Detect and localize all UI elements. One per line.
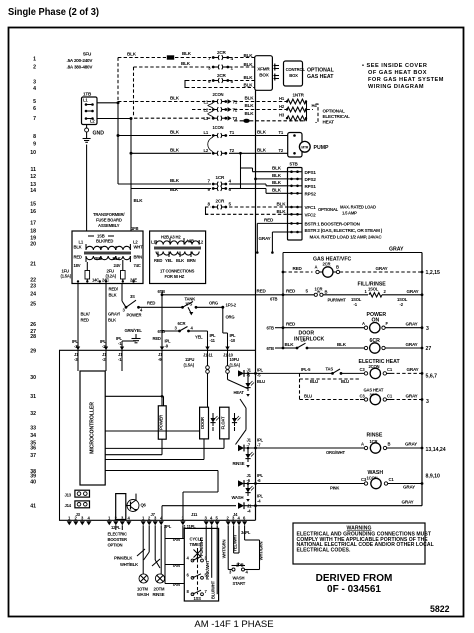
svg-text:GRAY/: GRAY/: [108, 312, 121, 317]
svg-text:5822: 5822: [430, 604, 450, 614]
wire pump row T2: [130, 147, 288, 155]
svg-text:-10: -10: [230, 338, 236, 343]
svg-text:2: 2: [33, 65, 36, 71]
svg-text:OPTIONAL: OPTIONAL: [307, 68, 335, 74]
svg-text:TRANSFORMER/: TRANSFORMER/: [93, 212, 125, 217]
svg-text:3S: 3S: [130, 294, 135, 299]
svg-text:PINK/BLK: PINK/BLK: [114, 555, 132, 560]
svg-text:BLK: BLK: [337, 342, 347, 347]
wire 6TB right bus: [282, 253, 284, 349]
resistor H2: [279, 104, 307, 112]
connector J13: [65, 490, 90, 497]
svg-text:BLK: BLK: [170, 130, 180, 135]
wire electric heat row: [244, 366, 365, 384]
svg-text:DERIVED FROM: DERIVED FROM: [316, 573, 393, 584]
svg-text:RED: RED: [286, 288, 296, 293]
svg-text:5TB: 5TB: [290, 162, 299, 167]
wire heat row L2 dashed: [192, 103, 254, 109]
svg-text:BLK: BLK: [181, 61, 191, 66]
svg-text:TAS: TAS: [326, 366, 334, 371]
svg-text:BLK: BLK: [272, 180, 282, 185]
svg-text:CONTROL: CONTROL: [286, 67, 306, 72]
svg-text:GRAY: GRAY: [403, 485, 415, 490]
pushbutton 2PB wash start: [228, 562, 259, 586]
svg-text:(1.5A): (1.5A): [230, 363, 241, 368]
svg-text:5FU: 5FU: [83, 52, 92, 57]
label 1SS: [194, 596, 202, 601]
svg-text:• SEE INSIDE COVER: • SEE INSIDE COVER: [362, 63, 427, 69]
wire wht grn 2: [245, 525, 264, 569]
contact 2CON L2-T2: [204, 107, 238, 112]
bottom caption: [194, 619, 273, 630]
wire BSTR1 red row: [256, 218, 288, 254]
svg-text:START: START: [233, 581, 246, 586]
svg-text:BOX: BOX: [289, 73, 298, 78]
contact 6CR tank: [158, 321, 208, 334]
svg-text:.5A 200-240V: .5A 200-240V: [67, 58, 94, 63]
label right refs 13-14-24: [426, 447, 446, 453]
relay coil 1CON wash: [244, 477, 423, 491]
wire bus L1 solid: [117, 103, 119, 184]
contact 2CON L3-T3: [204, 116, 238, 121]
label BLK row1: [127, 51, 253, 58]
svg-text:WASH: WASH: [233, 576, 245, 581]
svg-text:GRAY: GRAY: [402, 500, 414, 505]
svg-text:FUSE BOARD: FUSE BOARD: [96, 218, 122, 223]
svg-text:H1: H1: [279, 96, 285, 101]
svg-text:41: 41: [30, 504, 36, 510]
wire gas heat vfc row: [282, 257, 424, 278]
svg-text:DOOR: DOOR: [299, 331, 315, 337]
svg-text:BLK: BLK: [244, 62, 254, 67]
contact 2CR 8-5: [208, 198, 232, 209]
svg-text:6: 6: [33, 106, 36, 112]
wire 6TB vertical: [153, 295, 172, 351]
svg-text:1OTM: 1OTM: [137, 587, 149, 592]
svg-text:2OTM: 2OTM: [154, 587, 166, 592]
svg-text:DPS1: DPS1: [305, 170, 317, 175]
svg-text:RED: RED: [286, 321, 296, 326]
svg-text:BLK: BLK: [285, 342, 295, 347]
svg-text:RED: RED: [293, 266, 303, 271]
svg-text:BLK: BLK: [170, 147, 180, 152]
title: [8, 7, 99, 18]
svg-text:RED: RED: [74, 254, 82, 259]
relay coil 2CR power on: [267, 312, 424, 333]
wire 1TB L1 to bus: [97, 101, 120, 104]
wire dashed bus L1 upper: [117, 58, 119, 103]
wire 10FU slant: [228, 380, 248, 389]
label right ref 3b: [426, 399, 429, 405]
fuse 1FU: [61, 262, 90, 283]
transformer 1SB box: [72, 231, 143, 284]
label gas heat: [364, 388, 384, 398]
connector J11: [180, 512, 220, 525]
wire GRAY/BLK to J1-2: [106, 284, 121, 351]
svg-text:13,14,24: 13,14,24: [426, 447, 446, 453]
diode door: [210, 413, 219, 431]
svg-text:FOR 50 HZ: FOR 50 HZ: [165, 274, 185, 279]
svg-text:BLK: BLK: [182, 51, 192, 56]
connector J4: [226, 512, 248, 525]
rinse indicator: [233, 447, 255, 468]
svg-text:BLK: BLK: [127, 52, 137, 57]
svg-text:1NTR: 1NTR: [293, 92, 305, 97]
label right refs 8-9-10: [426, 474, 441, 480]
svg-text:20: 20: [30, 242, 36, 248]
svg-text:26: 26: [30, 322, 36, 328]
svg-text:TIMES: TIMES: [190, 542, 202, 547]
resistor H3: [279, 113, 307, 121]
wire float route slant: [236, 399, 247, 445]
svg-text:ELECTRICAL: ELECTRICAL: [323, 114, 350, 119]
svg-text:1TB: 1TB: [83, 92, 92, 97]
svg-text:RPS1: RPS1: [305, 184, 317, 189]
svg-text:PINK: PINK: [330, 486, 339, 491]
svg-text:RED: RED: [147, 301, 155, 306]
bracket electrical heat option: [316, 104, 319, 123]
wire GRN/YEL ground J1-1: [122, 328, 142, 350]
svg-text:RED: RED: [81, 318, 89, 323]
svg-text:TAN: TAN: [172, 582, 180, 587]
svg-text:6CR: 6CR: [178, 321, 186, 326]
svg-text:DPS2: DPS2: [305, 177, 317, 182]
wire row13: [118, 178, 211, 184]
svg-text:24V: 24V: [114, 263, 121, 268]
label 1CON: [213, 125, 224, 130]
svg-text:B: B: [336, 264, 339, 269]
wire gray return top: [283, 246, 422, 252]
svg-text:1CON: 1CON: [213, 125, 224, 130]
svg-text:ELECTRICAL CODES.: ELECTRICAL CODES.: [297, 547, 351, 553]
contact 2CON L1-T1: [204, 99, 238, 104]
svg-text:BLK/RED: BLK/RED: [96, 239, 113, 244]
svg-text:C1: C1: [389, 477, 395, 482]
svg-text:ORG/WHT: ORG/WHT: [326, 450, 345, 455]
svg-text:BLK: BLK: [257, 130, 267, 135]
label BLK row3: [244, 75, 254, 80]
svg-text:2CON: 2CON: [213, 92, 224, 97]
svg-text:1,2,15: 1,2,15: [426, 270, 441, 276]
svg-text:AM -14F 1 PHASE: AM -14F 1 PHASE: [194, 619, 273, 630]
connector J3: [67, 512, 92, 525]
derived from note: [316, 573, 393, 595]
50hz windings: [154, 238, 201, 257]
wire J1-1 into board: [121, 350, 123, 371]
svg-text:BLK: BLK: [245, 103, 255, 108]
labels 1FB bottom pins: [77, 277, 137, 282]
wire J1-9 to power ind: [161, 350, 164, 406]
svg-text:RINSE: RINSE: [153, 592, 165, 597]
switch tank 1FS: [162, 297, 237, 316]
svg-text:2CR: 2CR: [217, 73, 226, 78]
fuse 2FU: [106, 260, 126, 283]
svg-text:1SS: 1SS: [194, 596, 202, 601]
svg-text:H2: H2: [279, 104, 285, 109]
svg-text:33: 33: [30, 426, 36, 432]
svg-text:36: 36: [30, 446, 36, 452]
contact 2CR 9-6: [208, 73, 234, 84]
svg-text:RED: RED: [154, 258, 162, 263]
fuse 5FU: [167, 55, 174, 59]
svg-text:J1-11: J1-11: [203, 353, 213, 358]
svg-text:BLK: BLK: [272, 173, 282, 178]
svg-text:A: A: [315, 264, 318, 269]
svg-text:BLK: BLK: [74, 245, 82, 250]
svg-text:A3B: A3B: [186, 239, 194, 244]
svg-text:RED: RED: [257, 289, 267, 294]
svg-text:BRN: BRN: [187, 258, 196, 263]
link 1CON poles: [208, 137, 213, 152]
svg-text:1FB: 1FB: [131, 226, 138, 231]
wire motor feeds: [114, 525, 161, 574]
svg-text:RED: RED: [264, 218, 274, 223]
relay coil 3CR gas heat: [300, 393, 424, 404]
door indicator box: [200, 407, 209, 439]
svg-text:GRAY: GRAY: [406, 393, 418, 398]
pin IPL-11: [205, 347, 209, 351]
svg-text:BLK: BLK: [109, 293, 117, 298]
wire row2 supply dashed: [134, 66, 255, 68]
contact 2CR 7-4: [208, 50, 234, 61]
svg-text:14C: 14C: [92, 277, 99, 282]
svg-text:FLOAT: FLOAT: [220, 416, 225, 429]
svg-text:B: B: [325, 290, 328, 295]
svg-text:WASH: WASH: [137, 592, 149, 597]
wire power bottom loop: [105, 439, 162, 455]
svg-text:BOX: BOX: [259, 73, 269, 78]
svg-text:1CR: 1CR: [315, 286, 323, 291]
label transformer fuse board: [93, 212, 138, 231]
microcontroller box: [80, 371, 105, 485]
wash indicator: [232, 482, 255, 502]
svg-text:BLK: BLK: [277, 202, 287, 207]
svg-text:GRAY: GRAY: [405, 442, 417, 447]
svg-text:ELECTRIC HEAT: ELECTRIC HEAT: [359, 359, 401, 365]
svg-text:12: 12: [30, 174, 36, 180]
svg-text:OF GAS HEAT BOX: OF GAS HEAT BOX: [368, 70, 427, 76]
svg-text:RED/: RED/: [109, 287, 119, 292]
svg-text:74C: 74C: [134, 263, 141, 268]
svg-text:C3: C3: [360, 367, 366, 372]
svg-text:Q6: Q6: [141, 503, 147, 508]
svg-text:CYCLE: CYCLE: [190, 537, 204, 542]
svg-text:BLK: BLK: [277, 209, 287, 214]
svg-text:18: 18: [30, 229, 36, 235]
pin IPL-9: [160, 347, 164, 351]
terminal strip 5TB: [288, 162, 303, 241]
label vfc optional: [318, 204, 376, 215]
svg-text:GRN/YEL: GRN/YEL: [125, 328, 143, 333]
wire main bus x255: [255, 90, 257, 520]
svg-text:RED: RED: [153, 336, 161, 341]
svg-text:MAX. RATED LOAD 1/2 AMP, 24VAC: MAX. RATED LOAD 1/2 AMP, 24VAC: [310, 234, 383, 239]
svg-text:RINSE: RINSE: [367, 433, 383, 439]
timer contact 4-3: [187, 555, 208, 562]
svg-text:Single Phase (2 of 3): Single Phase (2 of 3): [8, 7, 99, 18]
note see inside cover: [362, 63, 444, 90]
svg-text:PUR/WHT: PUR/WHT: [328, 298, 347, 303]
label right refs 5-6-7: [426, 373, 438, 379]
wire timer feeds: [183, 525, 217, 599]
wire BSTR2 gray row: [259, 232, 288, 254]
pin J1-4: [238, 494, 264, 514]
svg-text:ELECTRIC: ELECTRIC: [108, 531, 128, 536]
svg-text:0F - 034561: 0F - 034561: [327, 584, 381, 595]
wire RPS2 row: [241, 187, 288, 193]
svg-text:8,9,10: 8,9,10: [426, 474, 441, 480]
svg-text:-11: -11: [210, 338, 216, 343]
pin J1-7: [238, 438, 264, 452]
timer contact 8-7: [187, 589, 208, 596]
label T2 pump: [279, 148, 284, 153]
svg-text:BLU: BLU: [341, 379, 349, 384]
wire dashed bus L2 upper: [133, 67, 135, 117]
svg-text:BLK: BLK: [244, 75, 254, 80]
connector J14: [65, 501, 90, 508]
pin IPL-10: [225, 347, 229, 351]
svg-text:21: 21: [30, 262, 36, 268]
motor 1OTM wash: [137, 574, 149, 597]
contact 2CR row2: [208, 65, 234, 71]
heat indicator: [234, 372, 255, 397]
svg-text:25: 25: [30, 302, 36, 308]
svg-text:6TB: 6TB: [267, 346, 274, 351]
label T1 pump: [279, 130, 284, 135]
fuse 11FU: [184, 350, 210, 407]
svg-text:GRAY: GRAY: [407, 289, 419, 294]
relay coil 2CON electric heat: [360, 364, 424, 379]
resistor H1: [279, 96, 307, 104]
svg-text:YEL: YEL: [165, 258, 173, 263]
fuse 10FU: [226, 350, 241, 379]
svg-text:1.5 AMP: 1.5 AMP: [342, 210, 357, 215]
svg-text:A: A: [362, 321, 365, 326]
wire pump row T1: [117, 130, 288, 138]
svg-text:BLK: BLK: [245, 111, 255, 116]
svg-text:J11: J11: [191, 512, 198, 517]
svg-text:ASSEMBLY: ASSEMBLY: [98, 223, 120, 228]
svg-text:1T CONNECTIONS: 1T CONNECTIONS: [160, 269, 195, 274]
svg-text:(1.5A): (1.5A): [184, 363, 195, 368]
wire vfc dashed row2: [205, 209, 288, 215]
svg-text:OPTIONAL: OPTIONAL: [318, 207, 339, 212]
label 2PL: [164, 524, 172, 529]
label wash coil: [367, 470, 384, 481]
svg-text:J13: J13: [65, 492, 72, 497]
svg-text:DOOR: DOOR: [200, 417, 205, 429]
svg-text:9: 9: [33, 142, 36, 148]
wire DPS2 row: [254, 173, 287, 180]
contact 1CON L2-T2: [204, 148, 235, 156]
label BSTR rows: [305, 222, 383, 240]
svg-text:BLU: BLU: [310, 379, 318, 384]
svg-text:GAS HEAT/VFC: GAS HEAT/VFC: [313, 257, 351, 263]
svg-text:BLK: BLK: [244, 53, 254, 58]
relay coil 6CR door interlock: [267, 331, 424, 354]
svg-text:XFMR: XFMR: [257, 67, 270, 72]
svg-text:BLK: BLK: [134, 198, 144, 203]
svg-text:WHT/BLK: WHT/BLK: [120, 562, 138, 567]
svg-text:1FS: 1FS: [185, 302, 192, 307]
pin IPL-1: [116, 336, 124, 350]
svg-text:BLU: BLU: [304, 393, 312, 398]
labels 50hz taps: [151, 234, 204, 262]
svg-text:10: 10: [30, 150, 36, 156]
labels J1 top pins: [74, 352, 234, 362]
svg-text:A: A: [361, 442, 364, 447]
svg-text:34: 34: [30, 433, 36, 439]
contact 1CR 7-4: [208, 175, 241, 186]
wire heat row L1 dashed: [118, 95, 254, 101]
svg-text:BLK: BLK: [245, 95, 255, 100]
svg-text:16: 16: [30, 209, 36, 215]
svg-text:BLK: BLK: [113, 256, 121, 261]
timer contact 6-5: [187, 573, 208, 580]
label right ref 3: [426, 326, 429, 332]
wire heat row L2 to H2 dashed: [234, 109, 286, 111]
svg-text:3: 3: [33, 80, 36, 86]
svg-text:FOR GAS HEAT SYSTEM: FOR GAS HEAT SYSTEM: [368, 77, 444, 83]
wire bus L2 solid: [131, 119, 143, 232]
motor MTR pump: [299, 141, 329, 152]
svg-text:BLK: BLK: [170, 96, 180, 101]
svg-text:BLK: BLK: [108, 318, 116, 323]
50hz box: [150, 231, 206, 284]
wire vfc dashed row1: [205, 202, 288, 208]
wire red feeder row: [158, 289, 284, 302]
svg-text:POWER: POWER: [127, 313, 142, 318]
wire xfmr-control links: [274, 64, 280, 81]
power indicator box: [158, 406, 166, 439]
wire yel wht loop: [232, 525, 239, 553]
svg-text:HEAT: HEAT: [323, 119, 335, 124]
svg-text:15: 15: [30, 202, 36, 208]
svg-text:8: 8: [33, 134, 36, 140]
svg-text:GAS HEAT: GAS HEAT: [307, 74, 334, 80]
svg-text:GRAY: GRAY: [406, 321, 418, 326]
svg-text:C1: C1: [387, 367, 393, 372]
svg-text:27: 27: [426, 346, 432, 352]
svg-text:POWER: POWER: [158, 415, 163, 430]
svg-text:2PB: 2PB: [236, 562, 244, 567]
label 1 11PL: [184, 524, 197, 529]
bracket vfc rows: [206, 207, 209, 214]
svg-text:VFC1: VFC1: [305, 205, 317, 210]
wire J1-3 into board: [77, 350, 79, 371]
svg-text:WHT: WHT: [134, 245, 144, 250]
svg-text:MICROCONTROLLER: MICROCONTROLLER: [90, 402, 96, 454]
wire ORG drop: [223, 307, 235, 333]
switch 3S power: [122, 294, 162, 318]
svg-text:C1: C1: [387, 393, 393, 398]
wire heat row L3 dashed: [134, 111, 254, 118]
svg-text:2CR: 2CR: [217, 50, 226, 55]
svg-text:WHT/GRN: WHT/GRN: [221, 540, 226, 559]
wire row4 dashed: [186, 87, 255, 89]
svg-text:31: 31: [30, 394, 36, 400]
wire fill rinse row: [282, 281, 424, 307]
svg-text:11: 11: [31, 167, 37, 173]
svg-text:ORG: ORG: [226, 315, 235, 320]
svg-text:BOOSTER: BOOSTER: [108, 537, 127, 542]
terminal block 1TB: [82, 92, 98, 125]
label BLK row2: [181, 61, 253, 67]
svg-text:29: 29: [30, 349, 36, 355]
svg-text:GRAY: GRAY: [259, 236, 271, 241]
svg-text:MTR: MTR: [301, 145, 308, 149]
wire 1TB L2 to bus: [97, 117, 133, 120]
